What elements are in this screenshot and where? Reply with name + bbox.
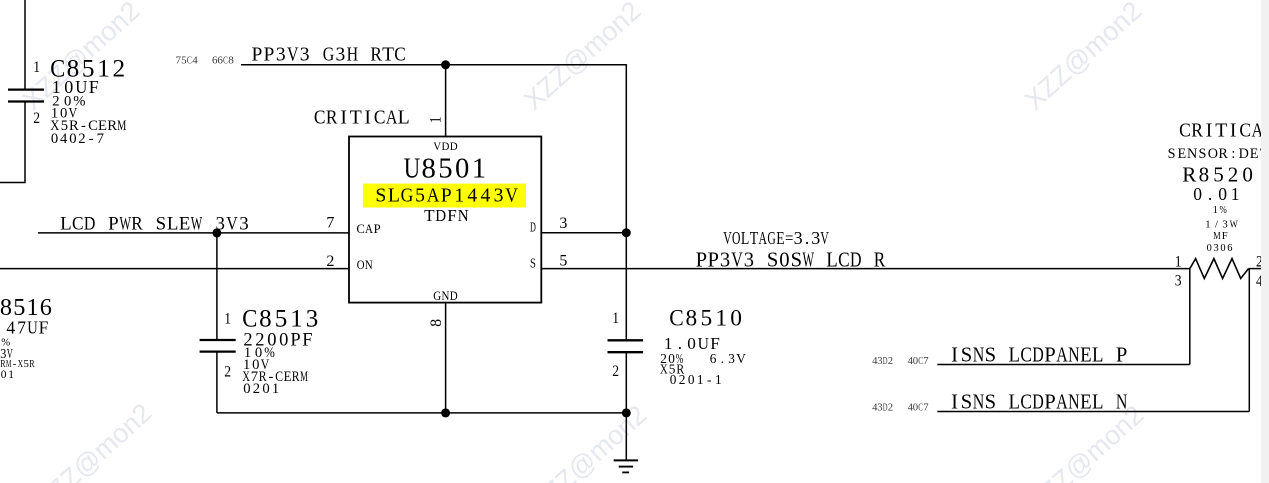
value labels C8512 (20% 10V X5R-CERM 0402-7) [50,93,126,147]
svg-text:43D2: 43D2 [872,402,893,414]
value labels R8520 (1% 1/3W MF 0306) [1205,205,1238,254]
junction at C8513 tap [212,228,221,237]
wire: net ISNS LCDPANEL P [937,364,1190,366]
svg-text:ON: ON [357,258,373,272]
svg-text:2: 2 [224,364,231,381]
svg-text:S: S [530,256,536,271]
highlight for part number SLG5AP1443V [363,184,526,208]
junction at D pin / vertical [622,228,631,237]
svg-text:1%: 1% [1213,205,1227,216]
wire: net LCD PWR SLEW 3V3 to CAP pin [38,232,349,234]
svg-text:C8512: C8512 [50,55,125,82]
wire: net PP3V3 G3H RTC horizontal [241,64,626,66]
wire: net PP3V3 S0SW LCD R (S pin to resistor) [541,268,1190,270]
svg-text:1: 1 [33,59,40,76]
svg-text:2: 2 [33,110,40,127]
wire: C8513 bottom lead [216,352,218,413]
svg-text:1/3W: 1/3W [1205,219,1238,231]
wire: ON pin from left edge [0,268,349,270]
svg-text:0306: 0306 [1207,243,1233,254]
page edge margin strip [1261,0,1269,483]
wire: D pin 3 to vertical [541,232,626,234]
value labels C8510 (20% 6.3V X5R 0201-1) [660,351,746,387]
wire: net ISNS LCDPANEL N [937,411,1249,413]
wire: VDD pin 1 vertical [445,65,447,137]
ground symbol [614,460,638,472]
svg-text:3: 3 [1175,273,1182,290]
svg-text:47UF: 47UF [6,318,48,338]
wire: right of R8520 to edge [1249,268,1262,270]
svg-text:75C4: 75C4 [176,55,199,67]
svg-text:ISNSLCDPANELP: ISNSLCDPANELP [951,345,1127,367]
wire: C8512 bottom lead to left edge [0,102,25,183]
junction at VDD pin tap [441,60,450,69]
IC U8501 body [349,137,541,303]
wire: vertical from top net down right side [625,64,627,340]
svg-text:ISNSLCDPANELN: ISNSLCDPANELN [951,391,1127,413]
svg-text:CRITICAL: CRITICAL [1179,120,1269,141]
junction at pin8 / bottom bus [441,408,450,417]
wire: R8520 sense pin 4 vertical [1248,269,1250,412]
svg-text:40C7: 40C7 [908,402,930,414]
svg-text:3: 3 [559,215,567,232]
svg-text:U8501: U8501 [404,153,486,185]
svg-text:R8520: R8520 [1182,163,1253,187]
svg-text:D: D [530,219,536,234]
svg-text:VOLTAGE=3.3V: VOLTAGE=3.3V [723,228,829,248]
svg-text:1: 1 [612,310,619,327]
svg-text:C8510: C8510 [669,306,742,332]
svg-text:7: 7 [326,215,334,232]
svg-text:2: 2 [326,253,334,270]
svg-text:MF: MF [1213,230,1228,242]
capacitor C8513 plates [200,340,236,352]
svg-text:8: 8 [428,319,445,327]
value labels C8516 (clipped: 20% 6.3V CERM-X5R 0201) [0,337,35,382]
svg-text:SENSOR:DETECT: SENSOR:DETECT [1168,146,1269,162]
wire: C8513 top lead [216,233,218,340]
svg-text:1: 1 [224,310,231,327]
svg-text:66C8: 66C8 [212,55,234,67]
wire: C8510 bottom lead [625,352,627,413]
capacitor C8510 plates [608,340,644,352]
svg-text:43D2: 43D2 [872,355,893,367]
wire: C8512 top lead [24,0,26,90]
svg-text:SLG5AP1443V: SLG5AP1443V [375,184,518,206]
wire: R8520 sense pin 3 vertical [1189,269,1191,365]
value labels C8513 (10% 10V X7R-CERM 0201) [242,345,308,397]
svg-text:VDD: VDD [433,139,458,153]
junction at C8510 / bottom bus [622,408,631,417]
svg-text:GND: GND [433,289,457,303]
wire: GND pin 8 vertical [445,303,447,413]
svg-text:1: 1 [1175,253,1182,270]
wire: ground stem [625,413,627,461]
svg-text:TDFN: TDFN [424,206,469,225]
capacitor C8512 plates [8,90,44,102]
svg-text:6.3V: 6.3V [710,351,747,366]
svg-text:C8513: C8513 [242,306,318,333]
svg-text:40C7: 40C7 [908,355,930,367]
svg-text:1: 1 [428,116,445,123]
wire: bottom ground bus [217,412,626,414]
resistor R8520 zigzag [1190,259,1249,279]
svg-text:5: 5 [559,253,567,270]
svg-text:2: 2 [612,363,619,380]
svg-text:CAP: CAP [356,222,380,236]
